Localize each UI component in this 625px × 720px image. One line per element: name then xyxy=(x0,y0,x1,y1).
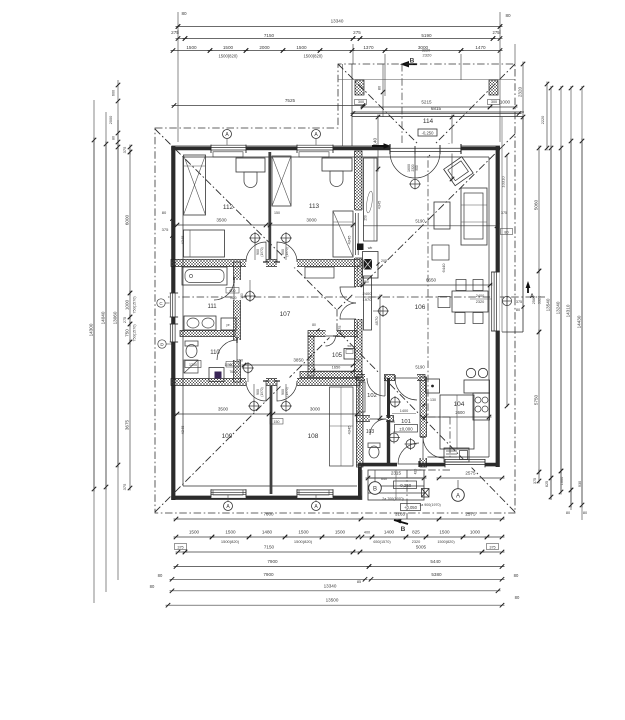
svg-text:112: 112 xyxy=(223,204,234,211)
svg-text:600: 600 xyxy=(230,289,236,293)
radiator 113 xyxy=(299,152,329,157)
svg-text:6815: 6815 xyxy=(431,106,442,111)
svg-text:300: 300 xyxy=(491,100,497,104)
door 102 arc xyxy=(384,378,386,396)
drain grate porch xyxy=(422,489,430,498)
porch steps bottom xyxy=(368,470,424,500)
svg-text:2400: 2400 xyxy=(476,294,484,298)
dimension col 14310 right xyxy=(570,139,572,493)
dimension 5215 porch xyxy=(361,106,493,108)
svg-text:7620: 7620 xyxy=(229,296,236,300)
svg-text:750(1570): 750(1570) xyxy=(133,296,137,314)
door 111 arc xyxy=(214,280,234,300)
svg-text:1000: 1000 xyxy=(560,477,564,485)
svg-text:114: 114 xyxy=(423,118,434,125)
main entrance opening xyxy=(390,144,461,154)
svg-text:2575: 2575 xyxy=(465,471,476,476)
dim right interior 10310 xyxy=(506,154,508,407)
dimension 2575 kitchen xyxy=(437,477,505,479)
washer 105 xyxy=(344,349,355,360)
svg-text:1500(820): 1500(820) xyxy=(221,539,240,544)
svg-text:14040: 14040 xyxy=(101,311,106,324)
vestibule closet xyxy=(364,158,378,241)
svg-text:108: 108 xyxy=(308,433,319,440)
axis circle A top 2 xyxy=(312,130,321,139)
svg-text:-0,250: -0,250 xyxy=(422,131,435,136)
svg-text:3000: 3000 xyxy=(310,407,321,412)
partition 109/108 xyxy=(270,386,273,494)
dimension 80 top-left stub xyxy=(177,12,179,34)
svg-text:wb: wb xyxy=(368,246,373,250)
svg-text:80: 80 xyxy=(158,573,163,578)
svg-text:13540: 13540 xyxy=(546,298,551,311)
porch slab edge top xyxy=(352,111,524,113)
wall west of living lower xyxy=(355,319,363,377)
outer wall bottom kitchen xyxy=(358,463,497,467)
kitchen sink circles xyxy=(466,368,475,377)
svg-text:2320: 2320 xyxy=(412,540,420,544)
axis circle A bottom 1 xyxy=(224,502,233,511)
svg-text:3500: 3500 xyxy=(216,218,227,223)
dimension row bottom right 1400/825/1500/1000 xyxy=(360,536,375,538)
svg-text:B: B xyxy=(373,486,377,492)
svg-text:5190: 5190 xyxy=(421,33,432,38)
dim room 108 width xyxy=(271,413,360,415)
svg-text:102: 102 xyxy=(367,393,377,399)
bed 1 room 112 xyxy=(184,155,206,215)
dimension row 7900/5440 xyxy=(174,566,372,568)
wall east of 102 xyxy=(387,378,390,418)
entrance arrow xyxy=(372,145,384,147)
entry door bottom opening xyxy=(397,460,419,470)
armchair 106 xyxy=(444,157,473,186)
svg-text:105: 105 xyxy=(332,353,343,359)
dimension col 2320 porch right xyxy=(522,62,524,120)
door 113 arc xyxy=(277,242,297,262)
door 109 arc xyxy=(246,381,266,401)
dimension row right 1370/3000/1470 xyxy=(350,50,388,52)
vent symbol 112 xyxy=(251,234,260,243)
svg-text:5380: 5380 xyxy=(431,572,442,577)
svg-text:5750: 5750 xyxy=(534,394,539,405)
outer wall right xyxy=(499,146,501,467)
svg-text:600: 600 xyxy=(112,90,116,96)
svg-text:(1970): (1970) xyxy=(260,247,264,256)
svg-text:6000: 6000 xyxy=(125,214,130,225)
window 110 left xyxy=(170,324,179,342)
outer wall left xyxy=(171,146,173,500)
svg-text:13340: 13340 xyxy=(324,583,337,588)
washer 111 xyxy=(221,318,236,330)
dim living 6650 xyxy=(361,284,493,286)
dimension 13500 bottom xyxy=(166,604,505,606)
dimension row windows 1500/1500/2000/1500 xyxy=(171,50,213,52)
svg-text:1470: 1470 xyxy=(475,45,486,50)
vent symbol 113 xyxy=(282,234,291,243)
svg-text:5190: 5190 xyxy=(415,365,425,370)
svg-text:2000: 2000 xyxy=(109,116,113,124)
roof hip top-left xyxy=(155,129,336,309)
svg-text:3675: 3675 xyxy=(125,419,130,430)
svg-text:(1970): (1970) xyxy=(260,387,264,396)
svg-text:2a 700(1970): 2a 700(1970) xyxy=(382,497,403,501)
wall between 111 and 110 xyxy=(180,331,235,337)
svg-text:101: 101 xyxy=(401,419,411,425)
window 112 top xyxy=(211,144,246,153)
bench corridor xyxy=(305,267,334,278)
wall south of 112/113 xyxy=(171,260,360,267)
dim room 113 width xyxy=(268,224,356,226)
roof hip bottom-left xyxy=(155,331,336,512)
roof hip porch left xyxy=(338,64,430,156)
svg-text:1500: 1500 xyxy=(296,45,307,50)
dim living height 4570 xyxy=(379,295,381,421)
svg-text:4570: 4570 xyxy=(374,316,379,326)
terrace slab right xyxy=(522,117,524,333)
kitchen hob xyxy=(473,393,490,420)
svg-text:130: 130 xyxy=(430,398,436,402)
svg-text:250: 250 xyxy=(364,215,368,221)
door 108 arc xyxy=(277,381,297,401)
svg-text:13060: 13060 xyxy=(113,311,118,324)
dim wc 600 xyxy=(226,362,239,368)
svg-text:7620: 7620 xyxy=(229,370,236,374)
vent symbol 108 xyxy=(282,402,291,411)
double door opening 107-106 xyxy=(353,287,363,319)
vent symbol hall 102 xyxy=(391,398,400,407)
svg-text:625: 625 xyxy=(545,481,549,487)
dimension col 13240 right xyxy=(560,146,562,474)
axis circle A kitchen door xyxy=(452,489,465,502)
svg-text:275: 275 xyxy=(123,317,127,323)
svg-text:400: 400 xyxy=(364,531,370,535)
svg-text:109: 109 xyxy=(222,433,233,440)
svg-text:1500: 1500 xyxy=(335,530,346,535)
svg-text:640: 640 xyxy=(381,477,387,481)
svg-text:275: 275 xyxy=(493,30,501,35)
chair room 113 xyxy=(330,171,343,187)
svg-text:100: 100 xyxy=(389,420,395,424)
wall east of 103 xyxy=(387,420,390,464)
svg-text:107: 107 xyxy=(280,311,291,318)
dimension 2540 porch depth xyxy=(451,115,453,182)
svg-text:±0,000: ±0,000 xyxy=(399,426,413,431)
svg-text:5190: 5190 xyxy=(415,219,425,224)
bed 2 room 113 xyxy=(333,211,353,257)
svg-text:80: 80 xyxy=(566,511,570,515)
svg-text:7900: 7900 xyxy=(263,572,274,577)
svg-text:375: 375 xyxy=(177,545,183,549)
svg-text:250: 250 xyxy=(363,280,369,284)
svg-text:2320: 2320 xyxy=(518,86,523,97)
svg-text:150: 150 xyxy=(274,420,280,424)
wall east of 101 xyxy=(420,377,427,467)
door 103 arc xyxy=(370,419,386,435)
radiator 108 xyxy=(299,490,329,495)
wall south of 105 and north of 102/101 xyxy=(300,372,362,378)
elevation box +0.050 xyxy=(401,504,421,511)
axis circle B porch xyxy=(369,482,382,495)
roof hip top-right xyxy=(338,134,515,309)
svg-text:110: 110 xyxy=(210,350,220,356)
svg-text:2320: 2320 xyxy=(476,300,484,304)
desk room 113 xyxy=(322,158,352,171)
bed 1 room 113 xyxy=(272,156,291,206)
dimension col 13060 left xyxy=(117,145,119,468)
svg-text:2220: 2220 xyxy=(541,116,545,124)
svg-text:1370: 1370 xyxy=(363,45,374,50)
kitchen oven xyxy=(444,448,469,462)
svg-text:B: B xyxy=(401,526,406,533)
window kitchen bottom xyxy=(445,459,485,468)
dimension 7525 xyxy=(172,105,366,107)
porch column right xyxy=(489,80,498,95)
svg-text:14300: 14300 xyxy=(89,323,94,336)
door 105 arc xyxy=(326,336,336,346)
svg-text:7525: 7525 xyxy=(285,98,296,103)
svg-text:2575: 2575 xyxy=(465,512,476,517)
svg-text:3500: 3500 xyxy=(218,407,229,412)
window 109 bottom xyxy=(211,489,246,498)
svg-text:150: 150 xyxy=(237,359,243,363)
svg-text:80: 80 xyxy=(516,308,520,312)
side table 106 xyxy=(432,245,449,260)
svg-text:14430: 14430 xyxy=(577,315,582,328)
roof overhang outline xyxy=(155,64,515,513)
dimension overall 13340 top row xyxy=(176,26,503,28)
wall west of living xyxy=(355,151,363,287)
svg-text:1000: 1000 xyxy=(470,530,481,535)
wall south of 102 xyxy=(357,416,394,422)
svg-text:420: 420 xyxy=(414,469,418,475)
svg-text:80: 80 xyxy=(150,584,155,589)
entrance vent symbol xyxy=(410,179,419,188)
porch dim 80 xyxy=(382,64,384,117)
svg-text:150: 150 xyxy=(274,211,280,215)
section line A-A horizontal xyxy=(168,296,545,298)
svg-text:375: 375 xyxy=(533,478,537,484)
svg-text:275: 275 xyxy=(353,30,361,35)
svg-text:80: 80 xyxy=(162,210,167,215)
dimension 2140 porch depth xyxy=(377,115,379,172)
svg-text:5215: 5215 xyxy=(421,100,432,105)
svg-text:375: 375 xyxy=(516,300,522,304)
svg-text:1970: 1970 xyxy=(363,297,373,302)
svg-text:825: 825 xyxy=(412,530,420,535)
kitchen island xyxy=(440,395,474,449)
svg-text:3000: 3000 xyxy=(306,218,317,223)
window 108 bottom xyxy=(297,489,333,498)
washing machine 110 xyxy=(209,368,224,382)
svg-text:1000: 1000 xyxy=(500,100,511,105)
svg-text:150: 150 xyxy=(240,293,244,299)
dimension col 14040 left xyxy=(105,142,107,490)
wall west of 102/103 xyxy=(357,377,364,467)
axis circle A top 1 xyxy=(223,130,232,139)
svg-text:pr.: pr. xyxy=(227,323,231,327)
outer wall top xyxy=(172,145,501,147)
svg-text:13240: 13240 xyxy=(556,301,561,314)
svg-text:85: 85 xyxy=(357,580,361,584)
dim bath 600 xyxy=(226,288,239,294)
section line jog double door xyxy=(357,250,359,338)
svg-text:80: 80 xyxy=(504,230,508,234)
wall east of 111/110 xyxy=(234,262,241,382)
dimension 80 top-right stub xyxy=(499,12,501,34)
radiator 112 xyxy=(213,152,243,157)
porch column left xyxy=(355,80,364,95)
wall north of 105 xyxy=(308,331,357,337)
wb black square xyxy=(357,244,364,251)
porch side line xyxy=(361,470,363,500)
svg-text:1500: 1500 xyxy=(225,530,236,535)
dimension row 275+7150+275+5190+275 xyxy=(176,38,188,40)
svg-text:1500: 1500 xyxy=(298,530,309,535)
svg-text:1500: 1500 xyxy=(189,530,200,535)
elevation 110 box xyxy=(185,361,201,368)
radiator 109 xyxy=(213,490,243,495)
door 101 from hall arc xyxy=(395,378,417,400)
svg-text:3850: 3850 xyxy=(293,358,304,363)
svg-text:930: 930 xyxy=(578,481,582,487)
dimension top-left roof stub xyxy=(117,80,119,146)
dimension row 7600/3165/2575 xyxy=(174,518,364,520)
bathtub 111 xyxy=(182,267,227,285)
coffee table 106 xyxy=(434,202,450,229)
extension lines top xyxy=(352,44,354,64)
dim kitchen 2600 line xyxy=(423,416,492,418)
elevation box -0.250 porch-south xyxy=(394,481,417,489)
svg-text:-0,250: -0,250 xyxy=(399,483,412,488)
svg-text:375: 375 xyxy=(162,227,169,232)
vent symbol 109 xyxy=(250,402,259,411)
svg-text:80: 80 xyxy=(112,136,116,140)
svg-text:80: 80 xyxy=(514,573,519,578)
svg-text:3165: 3165 xyxy=(395,512,406,517)
terrace drain xyxy=(502,296,511,305)
svg-text:1500: 1500 xyxy=(223,45,234,50)
svg-text:1050: 1050 xyxy=(224,363,231,367)
svg-text:1500(820): 1500(820) xyxy=(218,54,238,59)
dining table 106 xyxy=(452,291,488,312)
svg-text:+0,050: +0,050 xyxy=(404,505,418,510)
svg-text:80: 80 xyxy=(505,13,511,18)
kitchen counter top xyxy=(464,380,490,393)
svg-text:103: 103 xyxy=(366,429,375,435)
svg-text:1500: 1500 xyxy=(186,45,197,50)
toilet 110 xyxy=(185,341,198,346)
svg-text:106: 106 xyxy=(415,304,426,311)
kitchen fridge xyxy=(426,379,440,393)
dimension col 13540 right xyxy=(550,146,552,481)
door 110 arc xyxy=(217,340,237,360)
svg-text:80: 80 xyxy=(378,86,382,90)
svg-text:205: 205 xyxy=(381,259,387,263)
svg-text:6440: 6440 xyxy=(441,263,446,273)
svg-text:375: 375 xyxy=(122,483,127,490)
dim room 112 width xyxy=(175,224,269,226)
wardrobe 108 xyxy=(330,387,354,466)
svg-text:4345: 4345 xyxy=(180,425,185,435)
basin 110 xyxy=(184,360,198,373)
svg-text:80: 80 xyxy=(312,323,316,327)
svg-text:1500: 1500 xyxy=(439,530,450,535)
svg-text:13500: 13500 xyxy=(326,598,339,603)
vent symbol corridor south xyxy=(244,364,253,373)
desk room 112 xyxy=(236,158,265,172)
roof hip porch right xyxy=(424,64,515,155)
svg-text:2320: 2320 xyxy=(423,53,433,58)
svg-text:13340: 13340 xyxy=(331,19,344,24)
svg-text:300: 300 xyxy=(358,100,364,104)
svg-text:375: 375 xyxy=(122,146,127,153)
dimension 1000 porch xyxy=(488,106,518,108)
window 113 top xyxy=(297,144,333,153)
outer wall step 108-kitchen xyxy=(358,467,362,500)
section line B-B vertical xyxy=(401,64,403,146)
svg-text:5440: 5440 xyxy=(430,559,441,564)
entry door bottom arc xyxy=(398,443,419,464)
svg-text:750: 750 xyxy=(125,329,130,337)
dimension col right wall segments xyxy=(538,146,540,274)
dimension col 14300 left xyxy=(93,138,95,492)
door 112 arc xyxy=(246,242,266,262)
chair room 112 xyxy=(244,172,257,188)
wall north of 109/108 xyxy=(171,379,360,386)
svg-text:1400: 1400 xyxy=(384,530,395,535)
window 111 left xyxy=(170,293,179,317)
svg-text:6650: 6650 xyxy=(426,278,437,283)
vent symbol dining xyxy=(379,307,388,316)
main entrance door arcs xyxy=(414,152,416,178)
svg-text:7150: 7150 xyxy=(264,545,275,550)
dimension col left wall segments xyxy=(129,145,131,155)
svg-text:80: 80 xyxy=(515,595,520,600)
svg-text:7900: 7900 xyxy=(267,559,278,564)
svg-text:900: 900 xyxy=(415,165,419,171)
section line jog kitchen xyxy=(449,417,451,470)
double door 107-106 arcs xyxy=(340,287,356,303)
window terrace right xyxy=(491,272,500,331)
svg-text:1500(820): 1500(820) xyxy=(437,540,455,544)
dimension row bottom windows xyxy=(174,536,215,538)
svg-text:80: 80 xyxy=(583,511,587,515)
svg-text:1200: 1200 xyxy=(189,363,197,367)
svg-text:A: A xyxy=(456,493,460,499)
vent symbol 101 xyxy=(406,440,415,449)
dim line living y226 xyxy=(363,225,497,227)
vent symbol 101b xyxy=(390,433,399,442)
svg-text:2000: 2000 xyxy=(259,45,270,50)
washbasins 111 xyxy=(184,316,216,330)
svg-text:1400: 1400 xyxy=(400,409,408,413)
svg-text:4345: 4345 xyxy=(180,235,185,245)
svg-text:650(1570): 650(1570) xyxy=(373,540,391,544)
svg-text:(1970): (1970) xyxy=(285,387,289,396)
dimension right bottom cluster xyxy=(538,470,540,484)
shelf 102 xyxy=(359,382,365,412)
svg-text:7150: 7150 xyxy=(264,33,275,38)
elevation box -0.250 porch xyxy=(418,129,437,136)
svg-text:5005: 5005 xyxy=(416,545,427,550)
svg-text:4345: 4345 xyxy=(347,235,352,245)
dimension 2315 porch xyxy=(366,477,427,479)
svg-text:7600: 7600 xyxy=(263,512,274,517)
axis circle D left xyxy=(158,340,166,348)
svg-text:(1970): (1970) xyxy=(285,247,289,256)
svg-text:1500(820): 1500(820) xyxy=(294,539,313,544)
svg-text:14310: 14310 xyxy=(566,304,571,317)
